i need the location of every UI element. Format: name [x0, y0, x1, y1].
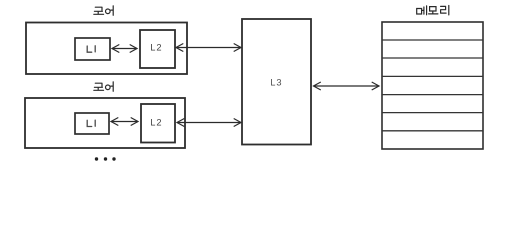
L2 cache box (core 1) — [140, 30, 175, 68]
memory row line 5 — [382, 112, 483, 114]
L3 cache box — [242, 19, 311, 145]
L2 cache box (core 2) — [141, 104, 175, 143]
memory row line 1 — [382, 39, 483, 41]
memory row line 2 — [382, 57, 483, 59]
memory row line 4 — [382, 94, 483, 96]
label core2 (코어) — [94, 82, 113, 92]
arrow L2-L3 core1 — [176, 44, 241, 52]
ellipsis dots — [95, 157, 116, 160]
label L1 — [87, 46, 95, 52]
core box 1 — [26, 23, 187, 75]
memory row line 6 — [382, 130, 483, 132]
svg-text:L2: L2 — [150, 118, 162, 128]
label core1 (코어) — [94, 6, 113, 16]
svg-text:L2: L2 — [150, 42, 162, 52]
svg-text:L3: L3 — [270, 77, 282, 87]
L1 cache box (core 2) — [75, 113, 109, 134]
memory box — [382, 22, 483, 149]
label memory (메모리) — [417, 6, 449, 15]
arrow L2-L3 core2 — [177, 119, 241, 127]
L1 cache box (core 1) — [75, 38, 110, 60]
memory row line 3 — [382, 75, 483, 77]
arrow L3-memory — [314, 82, 380, 90]
label L1 — [87, 120, 95, 126]
arrow L1-L2 core1 — [112, 45, 137, 53]
arrow L1-L2 core2 — [111, 118, 138, 126]
core box 2 — [25, 98, 185, 148]
